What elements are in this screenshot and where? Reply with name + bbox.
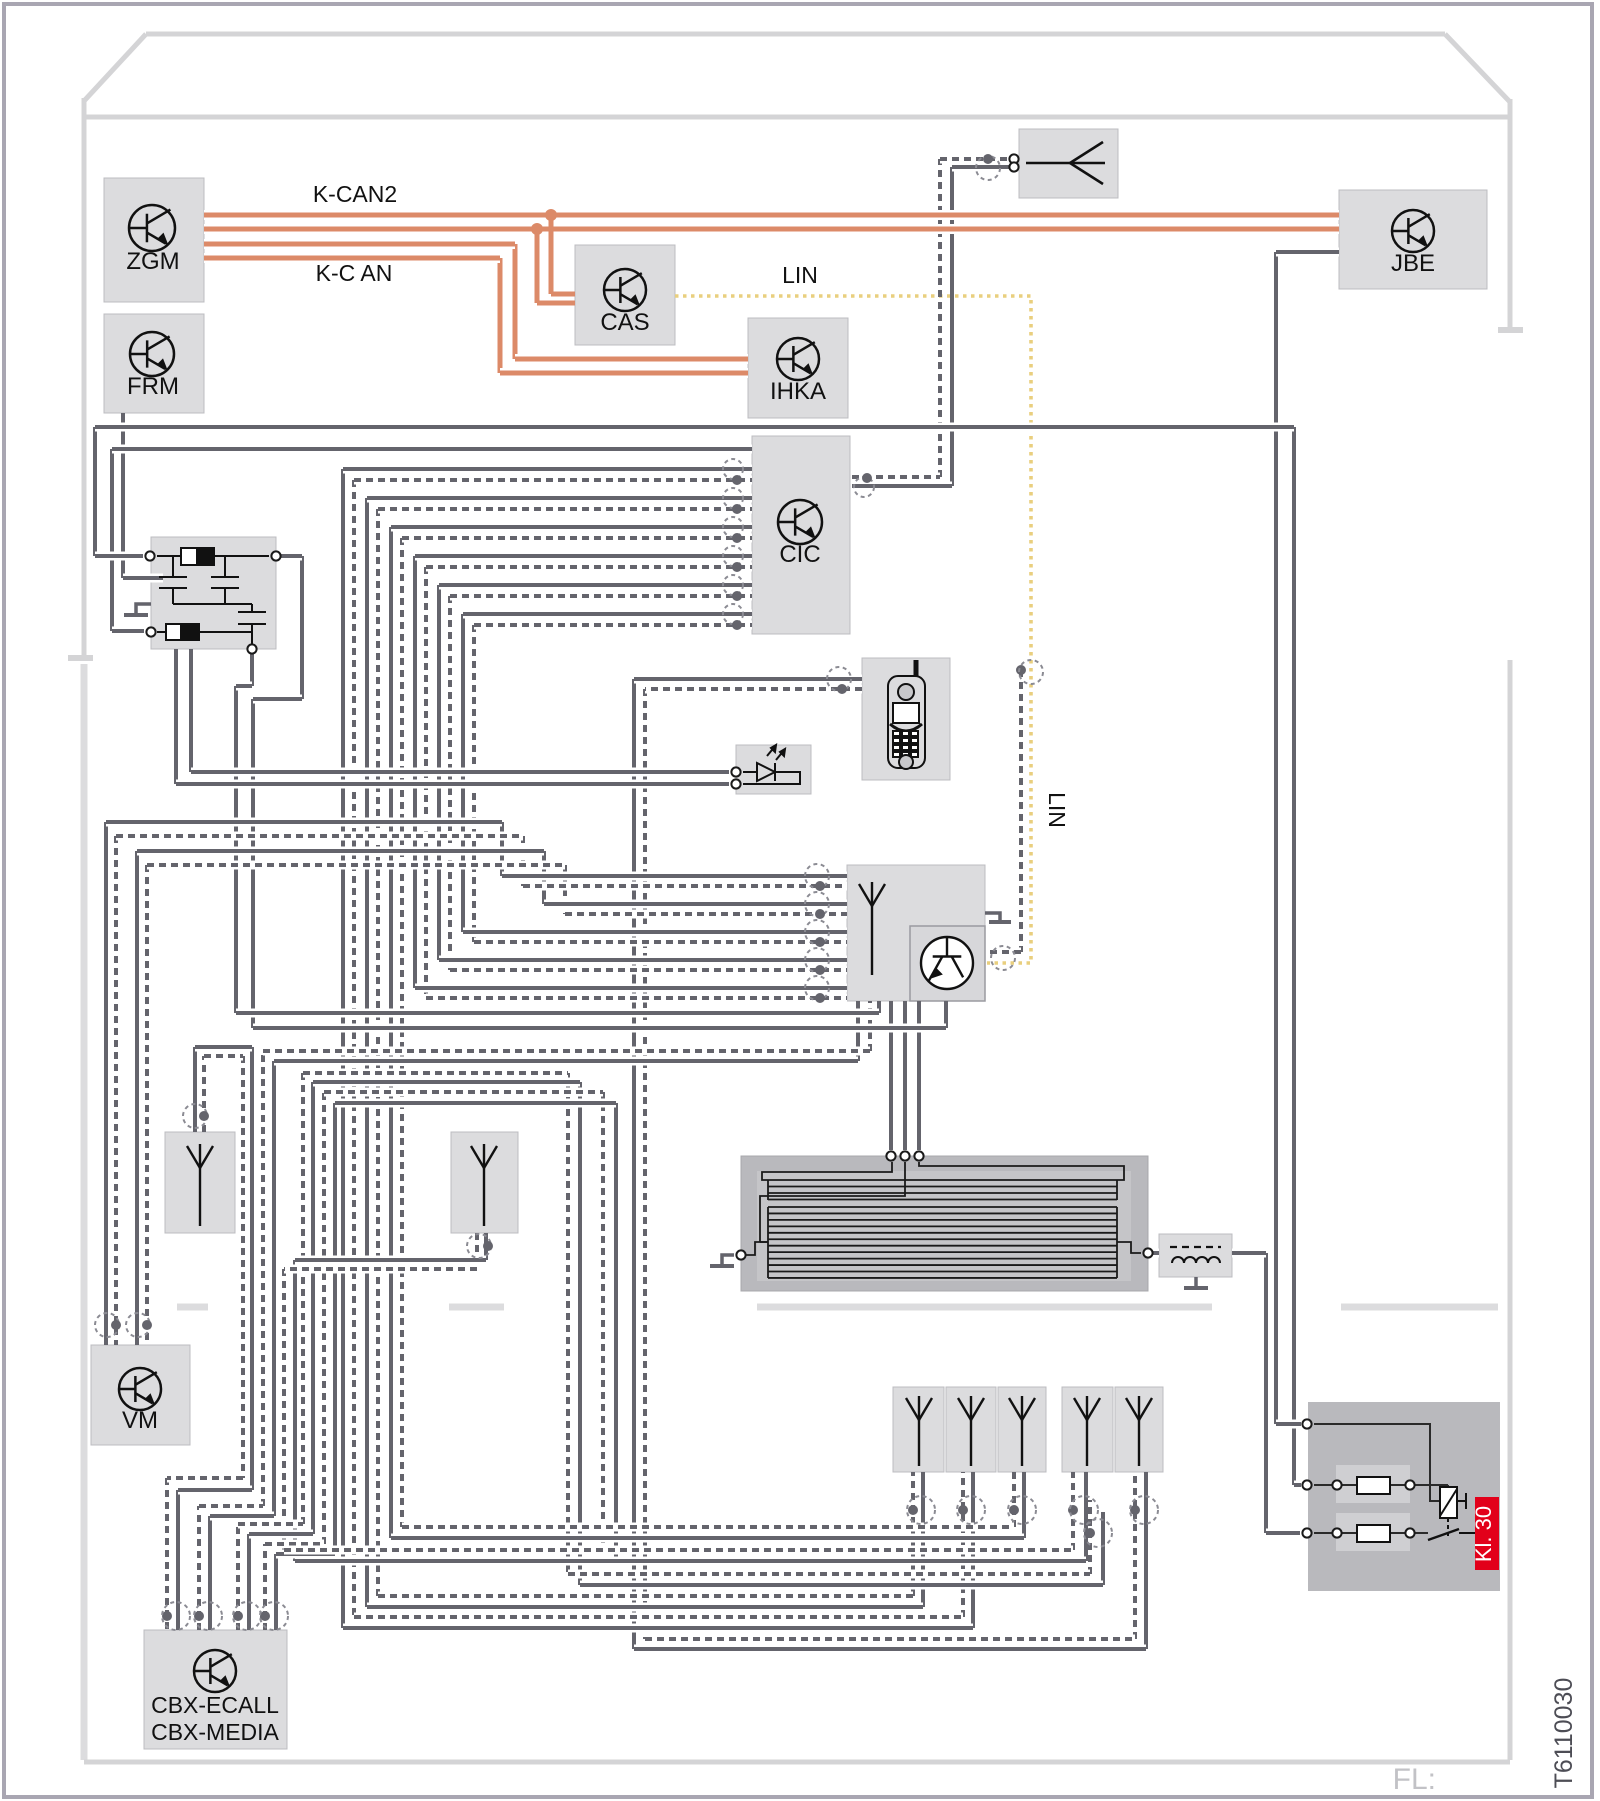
middle roof antenna box <box>451 1132 518 1233</box>
CBX pair 2 shield horizontal <box>263 1047 870 1056</box>
filter capacitor C1 <box>159 556 187 604</box>
svg-text:CBX-ECALL: CBX-ECALL <box>151 1692 279 1718</box>
bottom antenna box 5 <box>1115 1387 1163 1472</box>
FRM transistor icon <box>130 332 174 376</box>
filter internal node wire <box>173 603 252 605</box>
CIC transistor icon <box>778 500 822 544</box>
power fuse row 1 terminal a <box>1332 1480 1341 1489</box>
CIC coax pair 4 shield horizontal to amplifier <box>426 994 847 1003</box>
car body sill segment 4 <box>1341 1304 1498 1311</box>
svg-text:CIC: CIC <box>779 541 820 568</box>
roof antenna shield vertical <box>938 159 942 477</box>
CBX pair 3 core verticals <box>247 1534 251 1630</box>
roof antenna shield horizontal high <box>940 155 1011 164</box>
bottom antenna 4 junction dot <box>1068 1505 1078 1515</box>
LED wire upper vertical <box>189 649 193 772</box>
left antenna core jog <box>178 1486 252 1495</box>
bottom antenna 4 connector <box>1070 1496 1098 1524</box>
CIC left connector 1 <box>723 459 743 479</box>
amplifier connector row y932 <box>805 920 829 944</box>
filter terminal bottom <box>247 644 256 653</box>
telephone core bottom row <box>634 1645 1146 1654</box>
left antenna shield loop verticals <box>202 1056 206 1132</box>
rear window antenna module box <box>741 1156 1148 1291</box>
amplifier junction dot y904 <box>815 909 825 919</box>
K-CAN2 tap vertical upper <box>549 215 554 294</box>
CIC coax pair 5 shield horizontal to amplifier <box>450 966 847 975</box>
CIC coax pair 6 shield horizontal to CIC <box>474 621 752 630</box>
CIC feed wire horizontal <box>112 445 752 454</box>
CIC coax pair 4 shield vertical <box>424 567 428 998</box>
svg-text:FRM: FRM <box>127 373 179 400</box>
bottom antenna 2 connector <box>957 1496 985 1524</box>
roof antenna box <box>1019 129 1118 198</box>
control unit VM box <box>91 1345 190 1445</box>
amplifier connector row y988 <box>805 976 829 1000</box>
CIC coax pair 3 core vertical <box>389 527 393 1538</box>
VM pair B core vertical <box>135 851 139 1345</box>
amplifier connector row y904 <box>805 892 829 916</box>
bottom antenna 1 connector <box>907 1496 935 1524</box>
svg-text:CBX-MEDIA: CBX-MEDIA <box>151 1719 279 1745</box>
control unit CAS box <box>575 245 675 345</box>
power fuse row 1 terminal b <box>1405 1480 1414 1489</box>
CBX connector pair 4 dot <box>260 1611 270 1621</box>
CBX pair 4 core verticals <box>274 1554 278 1630</box>
bottom antenna box 4 <box>1062 1387 1113 1472</box>
CIC coax pair 3 shield horizontal to CIC <box>402 534 752 543</box>
car body right lower side <box>1508 660 1513 1760</box>
CIC left connector 4 <box>723 546 743 566</box>
middle antenna junction dot <box>483 1241 493 1251</box>
choke to fuse wire vertical <box>1264 1253 1268 1533</box>
LIN amplifier connector <box>991 946 1015 970</box>
telephone connector <box>827 667 851 691</box>
relay switch contact <box>1428 1529 1459 1540</box>
amplifier connector row y960 <box>805 948 829 972</box>
CIC coax pair 6 core horizontal to amplifier <box>463 928 847 937</box>
CIC coax pair 2 core horizontal to CIC <box>367 494 752 503</box>
car body sill segment 1 <box>177 1304 208 1311</box>
CIC coax pair 2 core bottom row <box>367 1603 923 1612</box>
telephone core vertical <box>632 679 636 1649</box>
power fuse row 1 terminal left <box>1302 1480 1311 1489</box>
middle antenna core verticals <box>484 1233 488 1260</box>
CIC feed wire filter stub <box>112 627 144 636</box>
CBX transistor icon <box>194 1650 236 1692</box>
control unit IHKA box <box>748 318 848 418</box>
CAS transistor icon <box>604 269 646 311</box>
VM connector 1 <box>95 1313 119 1337</box>
svg-text:LIN: LIN <box>1044 792 1070 828</box>
left roof antenna glyph <box>187 1144 213 1226</box>
amplifier junction dot y876 <box>815 881 825 891</box>
telephone dock box <box>862 658 950 780</box>
VM pair B shield vertical <box>145 865 149 1345</box>
svg-text:CAS: CAS <box>600 309 649 336</box>
CBX connector pair 4 circle <box>260 1602 288 1630</box>
VM connector 2 <box>126 1313 150 1337</box>
CIC left junction dot 3 <box>732 533 742 543</box>
CIC coax pair 3 shield vertical <box>400 538 404 1527</box>
ZGM transistor icon <box>129 205 175 251</box>
VM pair B shield horizontal <box>147 861 565 870</box>
left antenna core loop verticals <box>193 1047 197 1132</box>
filter fuse F1 <box>157 548 269 565</box>
CBX pair 2 core verticals <box>208 1516 212 1630</box>
amplifier output wire 1 <box>889 1001 893 1150</box>
CBX pair 4 shield horizontal <box>324 1088 603 1097</box>
interference filter box <box>151 537 276 649</box>
bottom antenna 5 junction dot <box>1130 1505 1140 1515</box>
CIC coax pair 5 core horizontal to amplifier <box>439 956 847 965</box>
CBX pair 3 shield jog <box>238 1520 303 1529</box>
choke to fuse wire bottom <box>1266 1529 1300 1538</box>
bottom antenna 1 junction dot <box>908 1505 918 1515</box>
filter capacitor C2 <box>211 556 239 604</box>
CIC coax pair 2 shield horizontal to CIC <box>378 505 752 514</box>
car body sill segment 2 <box>449 1304 504 1311</box>
left roof antenna box <box>165 1132 235 1233</box>
power internal wire to relay <box>1314 1424 1440 1501</box>
JBE power wire horizontal top <box>1276 248 1339 257</box>
control unit CBX box <box>144 1630 287 1749</box>
VM pair B core vertical stair <box>542 851 546 904</box>
CIC coax pair 1 core horizontal to CIC <box>343 465 752 474</box>
power feed wire left vertical <box>93 427 97 556</box>
CIC coax pair 6 core horizontal to CIC <box>463 610 752 619</box>
LED indicator box <box>736 745 811 794</box>
roof antenna junction dot <box>983 154 993 164</box>
CIC coax pair 1 shield horizontal to CIC <box>354 476 752 485</box>
window to choke wire <box>1151 1249 1159 1258</box>
middle antenna shield jog <box>284 1265 477 1274</box>
bottom antenna glyph 1 <box>906 1396 932 1466</box>
CIC coax pair 6 core vertical <box>461 614 465 932</box>
K-CAN2 bus wire 1 <box>204 210 1339 220</box>
K-CAN drop vertical 2 <box>498 258 503 373</box>
middle antenna shield bottom row <box>284 1546 1073 1555</box>
VM junction dot 1 <box>111 1320 121 1330</box>
CIC right junction dot <box>862 473 872 483</box>
car body left lower side <box>81 664 88 1760</box>
CBX pair 4 shield jog <box>265 1540 324 1549</box>
car body bottom line <box>84 1760 1510 1765</box>
roof antenna core horizontal low <box>852 482 952 491</box>
rear window antenna inner panel <box>757 1171 1131 1281</box>
VM pair A core amplifier row <box>502 872 847 881</box>
amplifier transistor sub-box <box>910 926 985 1001</box>
VM pair A core horizontal <box>106 818 502 827</box>
CIC coax pair 3 core antenna riser <box>1022 1472 1026 1538</box>
power fuse strip 1 <box>1336 1465 1410 1503</box>
CIC left connector 5 <box>723 575 743 595</box>
VM pair A core vertical stair <box>500 822 504 876</box>
rear window antenna terminal 1 <box>886 1151 895 1160</box>
K-CAN2 junction dot upper <box>545 209 557 221</box>
car body roof outline <box>146 32 1445 37</box>
LED terminal upper <box>731 767 740 776</box>
power feed wire filter stub <box>95 552 143 561</box>
K-CAN2 tap vertical lower <box>535 229 540 303</box>
telephone shield riser <box>1133 1472 1137 1639</box>
LED wire lower horizontal <box>176 780 729 789</box>
amplifier connector row y876 <box>805 864 829 888</box>
LED wire upper horizontal <box>191 768 729 777</box>
svg-text:VM: VM <box>122 1407 158 1434</box>
middle antenna shield verticals <box>475 1233 479 1269</box>
CIC feed wire vertical <box>110 449 114 631</box>
CIC coax pair 6 shield vertical <box>472 625 476 942</box>
CBX pair 3 core bottom row <box>580 1581 1103 1590</box>
amplifier junction dot y988 <box>815 993 825 1003</box>
control unit CIC box <box>752 436 850 634</box>
svg-text:T6110030: T6110030 <box>1550 1678 1578 1789</box>
car body windshield line <box>86 115 1508 120</box>
CBX connector pair 2 circle <box>194 1602 222 1630</box>
power feed wire fuse stub <box>1294 1481 1301 1490</box>
power terminal 30 input <box>1302 1419 1311 1428</box>
CIC coax pair 4 core horizontal to amplifier <box>415 984 847 993</box>
VM pair B shield amplifier row <box>565 910 847 919</box>
rear window antenna terminal 3 <box>914 1151 923 1160</box>
VM pair A shield horizontal <box>116 832 523 841</box>
CBX connector pair 1 dot <box>162 1611 172 1621</box>
K-CAN bus wire 1 horizontals <box>204 239 515 249</box>
bottom antenna glyph 3 <box>1009 1396 1035 1466</box>
rear window antenna heater grid <box>741 1162 1141 1278</box>
middle antenna core jog <box>295 1256 486 1265</box>
amplifier antenna glyph <box>859 882 885 975</box>
CBX connector pair 1 circle <box>162 1602 190 1630</box>
rear window antenna terminal 2 <box>900 1151 909 1160</box>
car body left pillar <box>82 98 87 655</box>
gap riser junction dot <box>1085 1528 1095 1538</box>
choke dashed line <box>1170 1246 1221 1248</box>
control unit FRM box <box>104 314 204 413</box>
CIC coax pair 2 shield bottom row <box>378 1592 913 1601</box>
bottom antenna box 1 <box>893 1387 944 1472</box>
roof antenna terminal upper <box>1009 154 1018 163</box>
CIC left junction dot 6 <box>732 620 742 630</box>
CBX pair 2 core jog <box>210 1512 274 1521</box>
amplifier ground symbol <box>985 913 1000 920</box>
CIC left junction dot 4 <box>732 562 742 572</box>
CIC coax pair 2 core antenna riser <box>921 1472 925 1607</box>
bottom antenna 2 junction dot <box>958 1505 968 1515</box>
CIC left connector 2 <box>723 488 743 508</box>
svg-text:LIN: LIN <box>782 262 818 288</box>
filter output A jog <box>236 682 252 691</box>
CIC coax pair 5 shield horizontal to CIC <box>450 592 752 601</box>
filter output A verticals <box>250 649 254 686</box>
filter terminal left lower <box>146 627 155 636</box>
CIC coax pair 2 core vertical <box>365 498 369 1607</box>
roof antenna core vertical <box>950 167 954 486</box>
K-CAN2 tap horizontal lower <box>537 301 575 306</box>
power feed wire right vertical <box>1292 427 1296 1485</box>
CIC coax pair 5 core vertical <box>437 585 441 960</box>
left antenna connector <box>183 1104 207 1128</box>
CIC right connector <box>854 477 874 497</box>
CIC coax pair 6 shield horizontal to amplifier <box>474 938 847 947</box>
CIC coax pair 1 shield vertical <box>352 480 356 1617</box>
power fuse 1 <box>1357 1477 1390 1494</box>
rear window antenna right terminal <box>1143 1248 1152 1257</box>
bottom antenna glyph 4 <box>1074 1396 1100 1466</box>
car body right pillar <box>1508 99 1513 327</box>
LIN shield dashed wire vertical <box>1019 670 1023 952</box>
svg-text:K-C AN: K-C AN <box>316 260 393 286</box>
CBX pair 4 shield verticals <box>263 1544 267 1630</box>
middle antenna core bottom row <box>295 1557 1086 1566</box>
FRM wire horizontal <box>123 574 163 583</box>
rear window antenna left terminal <box>736 1250 745 1259</box>
CBX pair 3 core jog <box>249 1530 313 1539</box>
K-CAN2 bus wire 2 <box>204 224 1339 234</box>
filter terminal left upper <box>145 551 154 560</box>
rear window ground symbol <box>722 1255 734 1264</box>
power fuse row 2 wire <box>1314 1532 1428 1534</box>
bottom antenna box 3 <box>998 1387 1046 1472</box>
LED diode symbol <box>743 745 800 784</box>
amplifier junction dot y960 <box>815 965 825 975</box>
power fuse strip 2 <box>1336 1513 1410 1551</box>
LIN junction dot <box>1016 665 1026 675</box>
svg-text:ZGM: ZGM <box>126 248 179 275</box>
CBX pair 3 shield horizontal <box>303 1069 568 1078</box>
bottom antenna glyph 5 <box>1126 1396 1152 1466</box>
power feed wire long horizontal <box>95 423 1294 432</box>
CIC coax pair 5 shield vertical <box>448 596 452 970</box>
svg-text:JBE: JBE <box>1391 250 1435 277</box>
CIC left junction dot 5 <box>732 591 742 601</box>
control unit ZGM box <box>104 178 204 302</box>
amplifier junction dot y932 <box>815 937 825 947</box>
CIC coax pair 1 shield antenna riser <box>961 1472 965 1617</box>
choke ground symbol <box>1194 1277 1198 1286</box>
roof antenna connector <box>976 156 1000 180</box>
middle antenna connector <box>467 1234 491 1258</box>
terminal Kl.30 red label <box>1475 1497 1499 1570</box>
CBX connector pair 3 circle <box>233 1602 261 1630</box>
CIC coax pair 2 shield antenna riser <box>911 1472 915 1596</box>
CIC coax pair 5 core horizontal to CIC <box>439 581 752 590</box>
CBX pair 2 core horizontal <box>274 1057 858 1066</box>
JBE power wire vertical <box>1274 252 1278 1424</box>
CIC coax pair 3 shield bottom row <box>402 1523 1014 1532</box>
left antenna shield jog <box>167 1474 243 1483</box>
CIC left connector 6 <box>723 604 743 624</box>
roof antenna shield horizontal low <box>852 473 940 482</box>
filter terminal right upper <box>271 551 280 560</box>
CIC coax pair 4 core horizontal to CIC <box>415 552 752 561</box>
roof antenna glyph <box>1026 142 1105 184</box>
VM pair A shield amplifier row <box>523 882 847 891</box>
telephone core riser <box>1144 1472 1148 1649</box>
CBX pair 4 core horizontal <box>335 1099 616 1108</box>
power fuse row 1 wire <box>1314 1484 1448 1486</box>
svg-text:K-CAN2: K-CAN2 <box>313 181 397 207</box>
CIC coax pair 1 shield bottom row <box>354 1613 963 1622</box>
telephone junction dot <box>837 684 847 694</box>
telephone shield bottom row <box>645 1635 1135 1644</box>
filter ground symbol <box>136 604 151 613</box>
left antenna junction dot <box>199 1111 209 1121</box>
antenna amplifier box <box>847 865 985 1001</box>
filter output A horizontal <box>236 1009 879 1018</box>
filter capacitor C3 <box>238 604 266 649</box>
car body sill segment 3 <box>757 1304 1212 1311</box>
filter output B top stub <box>276 552 302 561</box>
LIN bus wire CAS to amplifier <box>675 296 1031 963</box>
left antenna shield loop top <box>204 1052 243 1061</box>
CIC coax pair 3 core horizontal to CIC <box>391 523 752 532</box>
K-CAN2 tap horizontal upper <box>551 292 575 297</box>
CBX connector pair 2 dot <box>194 1611 204 1621</box>
filter output B jog <box>253 695 302 704</box>
gap riser connector <box>1084 1519 1112 1547</box>
telephone core horizontal <box>634 675 862 684</box>
VM pair A core vertical <box>104 822 108 1345</box>
middle roof antenna glyph <box>471 1144 497 1226</box>
control unit JBE box <box>1339 190 1487 289</box>
filter output B verticals <box>300 556 304 699</box>
CBX pair 3 shield bottom row <box>568 1570 1090 1579</box>
VM pair B shield vertical stair <box>563 865 567 914</box>
CIC coax pair 2 shield vertical <box>376 509 380 1596</box>
CIC coax pair 3 core bottom row <box>391 1534 1024 1543</box>
CBX connector pair 3 dot <box>233 1611 243 1621</box>
bottom antenna 5 connector <box>1130 1496 1158 1524</box>
filter output B horizontal <box>253 1024 946 1033</box>
VM pair A shield vertical stair <box>521 836 525 886</box>
VM pair B core horizontal <box>137 847 544 856</box>
power fuse row 2 terminal left <box>1302 1528 1311 1537</box>
K-CAN2 junction dot lower <box>531 223 543 235</box>
CIC coax pair 4 shield horizontal to CIC <box>426 563 752 572</box>
CIC coax pair 1 core antenna riser <box>971 1472 975 1628</box>
CBX pair 2 shield jog <box>199 1502 263 1511</box>
CIC coax pair 3 shield antenna riser <box>1012 1472 1016 1527</box>
amplifier output wire 2 <box>903 1001 907 1150</box>
CBX pair 3 shield verticals <box>236 1524 240 1630</box>
bottom antenna 3 junction dot <box>1009 1505 1019 1515</box>
VM pair A shield vertical <box>114 836 118 1345</box>
CBX pair 4 core jog <box>276 1550 335 1559</box>
IHKA transistor icon <box>777 338 819 380</box>
VM junction dot 2 <box>142 1320 152 1330</box>
bottom antenna box 2 <box>946 1387 996 1472</box>
CBX pair 2 shield verticals <box>197 1506 201 1630</box>
power fuse row 2 terminal a <box>1332 1528 1341 1537</box>
CIC coax pair 1 core vertical <box>341 469 345 1628</box>
svg-text:Kl. 30: Kl. 30 <box>1471 1506 1496 1562</box>
choke inductor coils <box>1172 1257 1184 1263</box>
left antenna core loop top <box>195 1043 252 1052</box>
CIC coax pair 4 core vertical <box>413 556 417 988</box>
telephone handset icon <box>888 660 925 769</box>
choke to fuse wire top <box>1232 1249 1266 1258</box>
bottom antenna 3 connector <box>1008 1496 1036 1524</box>
LED wire lower vertical <box>174 649 178 784</box>
FRM wire vertical <box>121 413 125 578</box>
bottom antenna glyph 2 <box>958 1396 984 1466</box>
roof antenna core horizontal high <box>952 163 1011 172</box>
roof antenna terminal lower <box>1009 162 1018 171</box>
amplifier output wire 3 <box>917 1001 921 1150</box>
CBX pair 3 core horizontal <box>313 1078 580 1087</box>
